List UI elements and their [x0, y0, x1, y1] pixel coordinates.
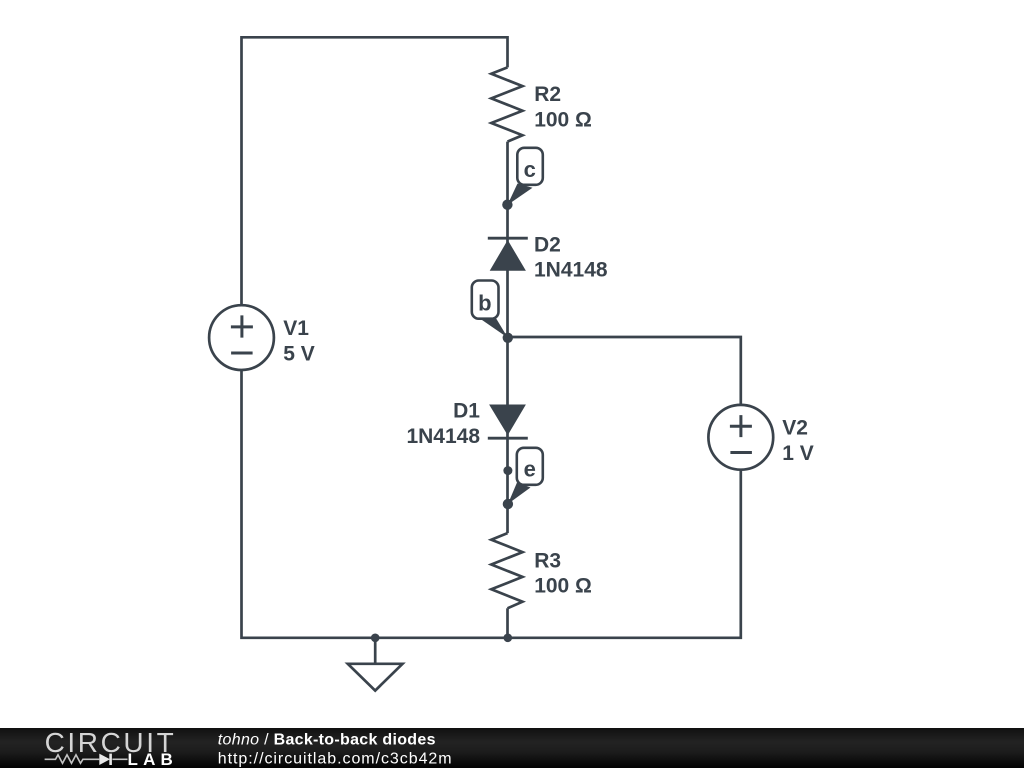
svg-text:c: c [524, 157, 536, 182]
svg-text:1N4148: 1N4148 [534, 259, 608, 282]
svg-text:1 V: 1 V [782, 442, 814, 465]
svg-text:e: e [524, 457, 536, 482]
svg-text:b: b [478, 291, 491, 316]
svg-text:tohno / Back-to-back diodes: tohno / Back-to-back diodes [218, 732, 436, 749]
svg-text:5 V: 5 V [283, 342, 315, 365]
svg-text:D2: D2 [534, 234, 561, 257]
svg-text:http://circuitlab.com/c3cb42m: http://circuitlab.com/c3cb42m [218, 750, 453, 767]
svg-text:D1: D1 [453, 400, 480, 423]
svg-text:R2: R2 [534, 83, 561, 106]
svg-text:V2: V2 [782, 417, 808, 440]
svg-text:R3: R3 [534, 549, 561, 572]
svg-text:V1: V1 [283, 317, 309, 340]
svg-text:100 Ω: 100 Ω [534, 108, 592, 131]
svg-text:LAB: LAB [128, 750, 179, 768]
svg-text:1N4148: 1N4148 [406, 425, 480, 448]
svg-text:100 Ω: 100 Ω [534, 575, 592, 598]
